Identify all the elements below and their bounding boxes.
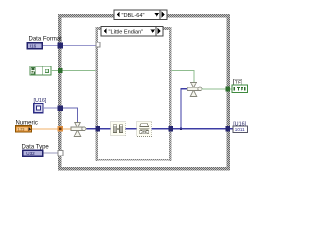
tunnel (outer left, orange, solid) [58,126,63,131]
wire node B -> inner right tunnel [152,128,169,130]
svg-text:1.23: 1.23 [17,127,24,131]
terminal [U16] array constant (blue square) [34,103,43,112]
wire type cast U2 -> inner tunnel [87,128,97,130]
wire green cluster -> outer tunnel [51,70,58,72]
terminal Data Format (I16 control) [27,42,44,50]
outer case structure border (case "DBL-64") [58,14,230,170]
svg-text:"DBL-64": "DBL-64" [122,13,145,19]
wire tunnel -> U16 indicator [230,128,233,130]
type cast U3 (data + green type -> TF) [187,83,202,97]
wire Numeric -> outer tunnel (orange) [32,128,58,130]
wire Data Type -> outer tunnel (hollow) [44,152,59,154]
tunnel (inner left, blue, solid) [96,126,101,131]
junction on main wire [180,128,182,130]
svg-text:"Little Endian": "Little Endian" [109,30,144,36]
wire junction up to type cast U3 [181,89,188,129]
svg-text:Data Type: Data Type [22,144,50,150]
wire [U16] -> outer tunnel -> down to type cast [43,107,58,109]
tunnel (outer right, blue, solid, data out) [226,126,230,131]
outer case selector label "DBL-64" [114,10,167,20]
wire green tunnel -> behind inner structure (gap segment) [63,70,96,72]
wire green reappearing right of inner structure [172,71,194,83]
svg-text:Data Format: Data Format [29,37,63,43]
terminal Data Type (U32 control, blue) [22,150,44,157]
indicator [U16] (right) [233,126,247,132]
inner case structure border (case "Little Endian") [96,27,172,161]
svg-text:I16: I16 [30,44,37,49]
function node A (swap bytes) [111,122,126,136]
wire orange tunnel -> type cast U2 left [63,128,72,130]
wire green tunnel -> TF indicator [230,88,232,90]
tunnel (outer right, green, solid) [226,86,230,91]
wire Data Format -> outer tunnel -> inner tunnel [43,44,96,46]
wire inner tunnel -> swap node A [100,128,111,130]
tunnel (outer left, blue, solid) [58,105,63,111]
terminal cluster (green, two cells) [30,66,51,75]
terminal Numeric (DBL control, orange) [15,125,32,132]
tunnel (outer left, hollow) [58,150,63,155]
wire inner right tunnel -> outer right tunnel [173,128,226,130]
label TF (small box above indicator) [234,79,242,85]
indicator [TF] (green terminal) [232,85,248,92]
tunnel (inner right, blue, solid) [169,126,173,131]
inner case selector label "Little Endian" [101,27,163,37]
wire type cast U3 -> outer right tunnel (green) [202,88,226,90]
tunnel (outer left, green, solid) [58,68,63,73]
wire node A -> node B [125,128,137,130]
type cast U2 (Numeric+[U16] -> data) [71,122,86,136]
svg-text:1011: 1011 [235,127,245,132]
wire inside: right then down into type cast U2 top [63,108,78,123]
function node B (swap words) [137,121,152,136]
svg-text:U32: U32 [26,151,35,156]
tunnel (outer left, Data Format, solid blue) [58,42,63,48]
tunnel (inner left, hollow) [96,42,100,47]
